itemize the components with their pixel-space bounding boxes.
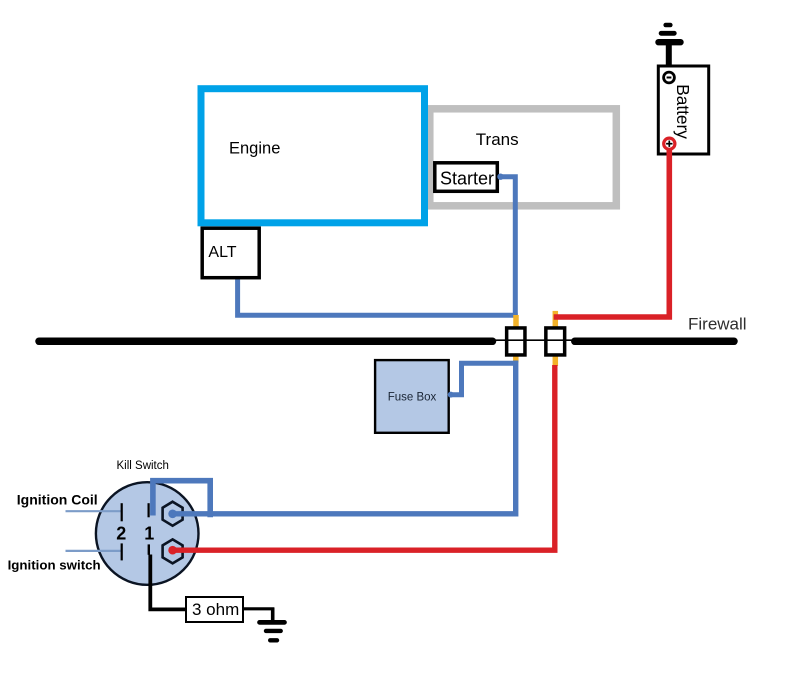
wire: pin1 to resistor (black) (150, 555, 186, 610)
ground (resistor) (260, 608, 285, 641)
svg-text:Firewall: Firewall (688, 315, 747, 334)
pin 2 top contact (121, 503, 123, 521)
fuse box (375, 360, 449, 433)
svg-text:Trans: Trans (476, 130, 519, 149)
battery B1 (658, 66, 708, 154)
battery negative terminal (664, 72, 675, 83)
svg-text:Ignition switch: Ignition switch (8, 558, 101, 573)
wire: ALT to firewall connector (blue) (238, 280, 518, 316)
wire: starter to firewall connector (blue) (497, 174, 515, 318)
thin wire: ignition switch lead (light blue) (66, 550, 122, 552)
pin 1 top contact (148, 503, 150, 517)
wire: left connector down to kill switch (blue) (173, 361, 516, 514)
svg-text:3 ohm: 3 ohm (192, 600, 239, 619)
terminal nut upper (hexagon) (163, 502, 183, 526)
svg-text:Starter: Starter (440, 169, 494, 189)
thin wire: ignition coil lead (light blue) (66, 510, 122, 512)
svg-text:2: 2 (116, 524, 126, 544)
connector stub orange (above left connector) (513, 315, 519, 327)
connector stub orange (above right connector) (553, 311, 559, 327)
wire tip dot at kill switch terminal (red) (168, 546, 177, 555)
kill switch body (96, 482, 199, 585)
ALT box (202, 228, 259, 278)
pin 2 bottom contact (121, 543, 123, 560)
svg-text:Ignition Coil: Ignition Coil (17, 492, 98, 508)
firewall connector block 2 (546, 328, 565, 355)
pin 1 bottom contact (dashed) (148, 544, 150, 554)
connector stub orange (below right connector) (553, 357, 559, 367)
firewall line right segment (575, 338, 734, 346)
engine box (201, 89, 425, 223)
wire tip dot at kill switch terminal (blue) (168, 510, 177, 519)
firewall connector block 1 (507, 328, 525, 355)
starter box (435, 163, 498, 192)
svg-text:Engine: Engine (229, 140, 280, 158)
svg-text:ALT: ALT (208, 244, 236, 261)
svg-text:Fuse Box: Fuse Box (388, 392, 437, 404)
battery positive terminal (664, 138, 675, 149)
transmission box (430, 109, 617, 206)
firewall line left segment (39, 338, 493, 346)
firewall thin line through connectors (490, 339, 578, 341)
wire: resistor to ground (black) (244, 607, 275, 610)
wire: fuse box to firewall connector (blue) (448, 363, 516, 397)
wire: right connector down to kill switch (red) (173, 365, 555, 550)
wire: kill switch loop pin1 to terminal (blue) (153, 481, 210, 518)
svg-text:Kill Switch: Kill Switch (117, 460, 169, 472)
connector stub orange (below left connector) (513, 357, 519, 363)
resistor box 3 ohm (186, 597, 243, 622)
svg-text:1: 1 (144, 524, 154, 544)
svg-text:Battery: Battery (673, 84, 693, 139)
ground (battery negative) (659, 25, 681, 72)
terminal nut lower (hexagon) (163, 539, 183, 563)
wire: battery positive to firewall connector (red) (554, 148, 670, 317)
